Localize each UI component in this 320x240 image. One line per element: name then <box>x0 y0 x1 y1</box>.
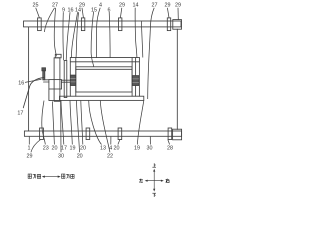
svg-text:29: 29 <box>165 2 171 8</box>
svg-text:20: 20 <box>80 146 86 152</box>
svg-text:29: 29 <box>119 2 125 8</box>
svg-text:14: 14 <box>75 8 81 14</box>
svg-text:4: 4 <box>109 146 112 152</box>
svg-text:16: 16 <box>18 81 24 87</box>
svg-text:29: 29 <box>27 153 33 159</box>
svg-text:23: 23 <box>43 146 49 152</box>
svg-text:27: 27 <box>152 2 158 8</box>
svg-text:20: 20 <box>114 146 120 152</box>
svg-text:19: 19 <box>134 146 140 152</box>
svg-text:17: 17 <box>61 146 67 152</box>
svg-text:25: 25 <box>33 2 39 8</box>
svg-text:9: 9 <box>62 8 65 14</box>
svg-text:17: 17 <box>17 111 23 117</box>
svg-text:16: 16 <box>68 8 74 14</box>
svg-text:30: 30 <box>58 153 64 159</box>
svg-text:22: 22 <box>107 154 113 160</box>
svg-text:28: 28 <box>167 146 173 152</box>
svg-text:29: 29 <box>175 2 181 8</box>
svg-text:27: 27 <box>52 2 58 8</box>
svg-text:19: 19 <box>70 146 76 152</box>
svg-text:15: 15 <box>91 7 97 13</box>
svg-text:20: 20 <box>52 146 58 152</box>
svg-text:4: 4 <box>99 2 102 8</box>
svg-text:13: 13 <box>100 146 106 152</box>
svg-text:20: 20 <box>77 153 83 159</box>
svg-text:30: 30 <box>147 146 153 152</box>
svg-text:14: 14 <box>133 2 139 8</box>
svg-text:6: 6 <box>108 7 111 13</box>
svg-text:1: 1 <box>28 146 31 152</box>
